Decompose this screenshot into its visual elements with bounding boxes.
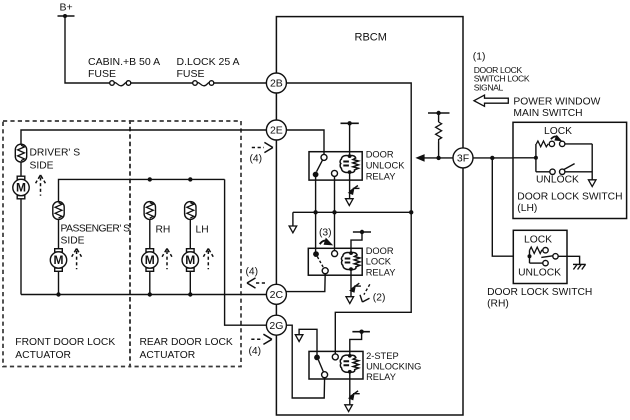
passenger's side coil bbox=[53, 202, 130, 247]
wire B+ down to fuse line bbox=[65, 16, 110, 83]
dashed arrow passenger motor bbox=[72, 249, 82, 270]
svg-text:(4): (4) bbox=[249, 346, 262, 357]
dashed arrow LH motor bbox=[203, 249, 213, 270]
LH coil bbox=[185, 202, 209, 236]
passenger's side motor bbox=[50, 249, 66, 272]
wire passenger coil to motor bbox=[58, 219, 60, 248]
wire LH coil to motor bbox=[189, 219, 191, 248]
svg-text:(LH): (LH) bbox=[517, 203, 537, 214]
svg-text:PASSENGER' S: PASSENGER' S bbox=[61, 224, 131, 235]
door lock relay switch bbox=[313, 251, 338, 274]
ground symbol bbox=[573, 264, 586, 269]
LH switch input node bbox=[513, 144, 538, 172]
LH lock contact resistor bbox=[536, 141, 548, 147]
svg-text:DOOR: DOOR bbox=[366, 149, 394, 159]
RH switch input node bbox=[528, 250, 532, 263]
door lock relay label bbox=[366, 246, 396, 278]
annotation (1) door lock switch lock signal bbox=[473, 52, 530, 93]
top supply rail of passenger/rear actuators bbox=[59, 179, 225, 201]
RH unlock contact bbox=[530, 260, 549, 265]
door unlock relay coil bbox=[340, 154, 358, 174]
lock relay driver transistor bbox=[350, 269, 361, 297]
wire junction down to RH switch bbox=[492, 158, 513, 256]
junction bottom rail LH bbox=[188, 292, 192, 296]
2-step relay switch bbox=[314, 354, 338, 378]
door lock switch LH box bbox=[513, 122, 627, 218]
power feed bar door unlock relay bbox=[341, 121, 359, 125]
ground branch of bus bbox=[292, 212, 294, 226]
wire passenger motor to bottom rail bbox=[58, 271, 60, 294]
door lock relay box bbox=[308, 248, 362, 275]
bottom rail to 2C bbox=[21, 294, 266, 296]
wire 2E to unlock relay switch bbox=[286, 130, 324, 154]
svg-text:RELAY: RELAY bbox=[366, 267, 396, 277]
dashed annotation arrow (4) at 2G bbox=[249, 334, 272, 357]
connector 3F bbox=[453, 148, 473, 168]
svg-text:MAIN SWITCH: MAIN SWITCH bbox=[513, 108, 582, 119]
ground arrow 2-step driver bbox=[345, 405, 353, 412]
svg-text:SIGNAL: SIGNAL bbox=[474, 83, 504, 93]
RH coil bbox=[144, 202, 170, 236]
svg-text:UNLOCKING: UNLOCKING bbox=[366, 362, 421, 372]
connector 2B bbox=[266, 73, 286, 93]
LH motor bbox=[182, 249, 198, 272]
svg-text:RELAY: RELAY bbox=[366, 171, 396, 181]
door lock relay coil bbox=[341, 251, 359, 271]
svg-text:UNLOCK: UNLOCK bbox=[518, 268, 561, 279]
svg-text:B+: B+ bbox=[60, 1, 73, 13]
svg-text:CABIN.+B 50 A: CABIN.+B 50 A bbox=[88, 56, 160, 68]
junction bottom rail passenger bbox=[56, 292, 60, 296]
wire lock relay output to 2C bbox=[286, 274, 325, 292]
junction top rail RH bbox=[148, 177, 152, 181]
junction bottom rail RH bbox=[148, 292, 152, 296]
2-step relay coil bbox=[340, 354, 358, 374]
dashed arrow RH motor bbox=[162, 249, 172, 270]
svg-text:3F: 3F bbox=[457, 153, 469, 165]
wire power bar to lock relay coil bbox=[351, 232, 362, 253]
svg-text:SIDE: SIDE bbox=[61, 235, 85, 246]
svg-text:RELAY: RELAY bbox=[366, 372, 396, 382]
ground arrow 2-step common bbox=[295, 335, 303, 342]
wire 3F to LH switch bbox=[473, 157, 513, 159]
wire unlock contact down bbox=[334, 176, 336, 250]
annotation (3) with actuation arrow bbox=[319, 228, 333, 246]
svg-text:REAR DOOR LOCK: REAR DOOR LOCK bbox=[140, 337, 233, 348]
RH common contact with lever bbox=[541, 254, 558, 259]
wire fuse to 2B bbox=[214, 82, 267, 84]
wire driver's motor to bottom rail bbox=[20, 199, 22, 295]
svg-text:(1): (1) bbox=[473, 52, 486, 63]
output bus wire y212 bbox=[293, 211, 411, 213]
junction rail / relay output bus bbox=[409, 210, 413, 214]
ground branch 2-step common bbox=[299, 329, 317, 357]
svg-text:2E: 2E bbox=[270, 125, 283, 137]
svg-text:RH: RH bbox=[156, 224, 171, 235]
junction resistor on 3F line bbox=[436, 156, 440, 160]
svg-text:2B: 2B bbox=[270, 78, 283, 90]
rear door lock actuator dashed box bbox=[130, 121, 241, 367]
svg-text:(RH): (RH) bbox=[487, 299, 509, 310]
wire top rail down to 2G bbox=[225, 179, 267, 325]
ground arrow unlock relay driver bbox=[346, 199, 354, 206]
svg-text:LH: LH bbox=[196, 224, 209, 235]
ground arrow bus bbox=[289, 226, 297, 233]
LH lock actuation arrow bbox=[551, 135, 562, 142]
dashed annotation arrow (4) at 2C bbox=[246, 267, 268, 289]
ground arrow lock relay driver bbox=[346, 297, 354, 304]
connector 2G bbox=[266, 315, 286, 335]
signal arrow into B+ rail bbox=[415, 154, 424, 162]
svg-text:RBCM: RBCM bbox=[355, 32, 387, 44]
junction to RH switch bbox=[490, 156, 494, 160]
connector 2C bbox=[266, 284, 286, 304]
power feed bar 2-step relay bbox=[352, 330, 370, 334]
svg-text:(2): (2) bbox=[373, 293, 386, 304]
LH switch ground wire bbox=[591, 144, 593, 180]
RBCM module box bbox=[276, 17, 463, 415]
dashed annotation arrow (4) at 2E bbox=[250, 142, 273, 164]
svg-text:(3): (3) bbox=[319, 228, 332, 239]
2-step relay label bbox=[366, 351, 421, 382]
svg-text:SIDE: SIDE bbox=[30, 161, 54, 172]
RH motor bbox=[142, 249, 158, 272]
wire between fuses bbox=[131, 82, 193, 84]
resistor pull-up at 3F bbox=[428, 111, 450, 158]
2-step driver transistor bbox=[349, 372, 360, 405]
wire power bar to unlock relay coil bbox=[349, 123, 351, 156]
svg-text:ACTUATOR: ACTUATOR bbox=[140, 350, 196, 361]
svg-text:ACTUATOR: ACTUATOR bbox=[15, 350, 71, 361]
RH switch output wire bbox=[558, 256, 579, 264]
svg-text:DOOR: DOOR bbox=[366, 246, 394, 256]
driver's side motor bbox=[13, 176, 29, 199]
wire RH motor to bottom rail bbox=[149, 271, 151, 294]
wire unlock switch common down bbox=[315, 175, 317, 255]
door unlock relay label bbox=[366, 149, 406, 181]
block arrow signal direction bbox=[474, 95, 508, 106]
svg-text:UNLOCK: UNLOCK bbox=[536, 175, 579, 186]
connector 2E bbox=[266, 120, 286, 140]
svg-text:LOCK: LOCK bbox=[544, 126, 572, 137]
svg-text:(4): (4) bbox=[246, 267, 259, 278]
svg-text:2-STEP: 2-STEP bbox=[366, 351, 399, 361]
2-step unlocking relay box bbox=[309, 351, 363, 379]
svg-text:FUSE: FUSE bbox=[177, 68, 205, 80]
wire RH coil to motor bbox=[149, 219, 151, 248]
wire power bar to 2-step coil bbox=[350, 332, 362, 356]
LH box caption bbox=[517, 191, 622, 214]
RH lock contact resistor bbox=[530, 247, 549, 253]
power feed bar door lock relay bbox=[353, 230, 371, 234]
LH ground arrow bbox=[588, 180, 596, 187]
svg-text:POWER WINDOW: POWER WINDOW bbox=[513, 97, 600, 108]
fuse D.LOCK 25 A bbox=[177, 56, 240, 86]
battery terminal B+ bbox=[58, 1, 75, 18]
door unlock relay box bbox=[309, 152, 362, 180]
internal B+ rail from 2B bbox=[286, 83, 411, 354]
front door lock actuator dashed box bbox=[3, 121, 130, 367]
wire LH motor to bottom rail bbox=[189, 271, 191, 294]
svg-text:2C: 2C bbox=[270, 289, 284, 301]
svg-text:FRONT DOOR LOCK: FRONT DOOR LOCK bbox=[15, 337, 115, 348]
wire 2E to driver's side branch bbox=[21, 130, 266, 144]
wire coil to motor bbox=[20, 162, 22, 176]
junction bus at switch common bbox=[313, 210, 317, 214]
driver's side coil bbox=[15, 144, 80, 171]
LH lock contacts bbox=[549, 141, 592, 146]
svg-text:D.LOCK 25 A: D.LOCK 25 A bbox=[177, 56, 240, 68]
dashed arrow driver's motor bbox=[36, 175, 46, 196]
wire 3F line left segment bbox=[424, 157, 454, 159]
svg-text:LOCK: LOCK bbox=[366, 257, 392, 267]
svg-text:DOOR LOCK SWITCH: DOOR LOCK SWITCH bbox=[517, 191, 622, 202]
svg-text:UNLOCK: UNLOCK bbox=[366, 160, 406, 170]
svg-text:DOOR LOCK SWITCH: DOOR LOCK SWITCH bbox=[487, 287, 592, 298]
unlock relay driver transistor bbox=[349, 172, 360, 199]
svg-text:DRIVER' S: DRIVER' S bbox=[30, 147, 81, 158]
door unlock relay switch bbox=[313, 154, 338, 177]
svg-text:LOCK: LOCK bbox=[524, 235, 552, 246]
power window main switch label bbox=[513, 97, 600, 119]
junction bus at contact bbox=[332, 210, 336, 214]
wire 2-step output to 2G bbox=[286, 325, 324, 398]
svg-text:2G: 2G bbox=[269, 320, 283, 332]
LH unlock contacts with lever bbox=[536, 164, 592, 175]
fuse CABIN.+B 50 A bbox=[88, 56, 160, 86]
door lock switch RH box bbox=[513, 230, 567, 283]
svg-text:(4): (4) bbox=[250, 154, 263, 165]
svg-text:FUSE: FUSE bbox=[88, 68, 116, 80]
RH box caption bbox=[487, 287, 592, 309]
junction top rail LH bbox=[188, 177, 192, 181]
annotation (2) dashed arrow bbox=[360, 284, 385, 303]
